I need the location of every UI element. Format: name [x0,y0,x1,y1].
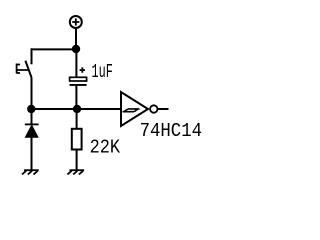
junction node A (top) [72,45,80,53]
wire power to junction [75,28,77,49]
wire down to switch top terminal [31,48,33,64]
capacitor C top plate [70,77,87,81]
capacitor C bottom plate [70,84,87,86]
wire diode to ground [31,137,33,170]
wire capacitor bottom to junction [75,86,77,110]
resistor R 22K (box) [72,129,82,150]
wire capacitor top (junction to cap) [75,49,77,78]
wire resistor to ground [76,150,78,171]
ground (right) [67,170,84,174]
diode D (anode triangle) [25,125,38,137]
svg-text:1uF: 1uF [92,61,113,83]
wire switch bottom terminal to junction [31,78,33,110]
wire inverter output [158,108,169,110]
horizontal rail wire to inverter input [32,108,122,110]
ground (left) [22,170,39,174]
Schmitt-trigger inverter U1 74HC14 (triangle) [121,92,148,126]
junction node B (left, above diode) [27,105,35,113]
junction node C (above resistor) [73,105,81,113]
capacitor C (polarized) plus mark [80,67,85,72]
svg-text:22K: 22K [90,137,121,159]
inverter output bubble [150,105,157,112]
hysteresis symbol [123,109,140,112]
power supply symbol V+ [70,16,82,28]
wire junction to switch (horizontal) [32,48,77,50]
pushbutton switch [17,61,32,78]
wire junction to diode [31,109,33,124]
svg-text:74HC14: 74HC14 [140,120,202,142]
wire junction to resistor [76,109,78,129]
diode D (cathode bar) [25,123,39,125]
